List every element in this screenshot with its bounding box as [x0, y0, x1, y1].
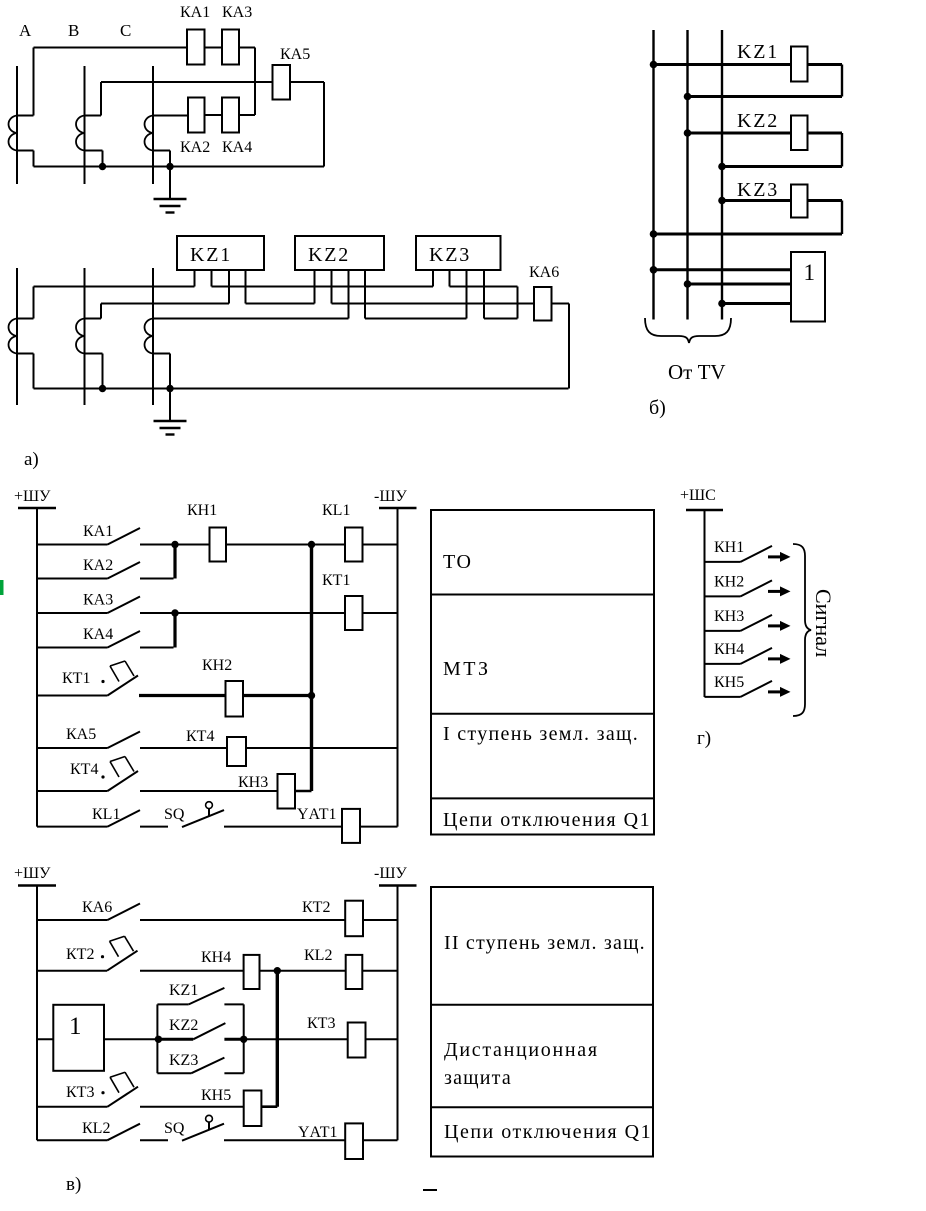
svg-text:+ШУ: +ШУ [14, 488, 51, 505]
svg-text:КН1: КН1 [187, 502, 217, 519]
svg-text:КА5: КА5 [66, 726, 96, 743]
svg-text:KZ3: KZ3 [169, 1052, 198, 1069]
svg-text:КА4: КА4 [83, 626, 113, 643]
svg-text:II ступень земл. защ.: II ступень земл. защ. [444, 932, 646, 954]
svg-text:С: С [120, 21, 131, 40]
svg-text:г): г) [697, 728, 711, 749]
svg-text:-ШУ: -ШУ [374, 488, 407, 505]
svg-text:KZ2: KZ2 [169, 1017, 198, 1034]
svg-text:КА5: КА5 [280, 46, 310, 63]
svg-text:КА3: КА3 [222, 4, 252, 21]
svg-text:В: В [68, 21, 79, 40]
svg-text:в): в) [66, 1174, 81, 1195]
svg-text:KZ1: KZ1 [737, 41, 779, 63]
svg-text:КТ3: КТ3 [307, 1015, 335, 1032]
svg-text:От TV: От TV [668, 360, 726, 384]
svg-text:SQ: SQ [164, 806, 185, 823]
svg-text:КТ4: КТ4 [70, 761, 98, 778]
svg-text:КА6: КА6 [82, 899, 112, 916]
svg-text:I ступень земл. защ.: I ступень земл. защ. [443, 723, 639, 745]
svg-text:КН5: КН5 [714, 674, 744, 691]
svg-text:КL2: КL2 [82, 1120, 110, 1137]
svg-text:КL2: КL2 [304, 947, 332, 964]
svg-text:Цепи отключения Q1: Цепи отключения Q1 [444, 1121, 652, 1143]
svg-text:А: А [19, 21, 32, 40]
svg-text:КА1: КА1 [83, 523, 113, 540]
svg-text:КТ4: КТ4 [186, 728, 214, 745]
svg-text:КН4: КН4 [201, 949, 231, 966]
svg-text:КТ2: КТ2 [66, 946, 94, 963]
svg-text:КН5: КН5 [201, 1087, 231, 1104]
svg-text:КА2: КА2 [180, 139, 210, 156]
svg-text:КL1: КL1 [92, 806, 120, 823]
svg-text:КА4: КА4 [222, 139, 252, 156]
svg-text:KZ3: KZ3 [737, 179, 779, 201]
svg-text:+ШС: +ШС [680, 487, 716, 504]
svg-text:YАТ1: YАТ1 [297, 806, 336, 823]
svg-text:КА1: КА1 [180, 4, 210, 21]
svg-text:КТ1: КТ1 [322, 572, 350, 589]
svg-text:YАТ1: YАТ1 [298, 1124, 337, 1141]
svg-text:KZ3: KZ3 [429, 244, 471, 266]
svg-text:Сигнал: Сигнал [811, 589, 836, 657]
svg-text:Дистанционная: Дистанционная [444, 1039, 599, 1061]
svg-text:KZ1: KZ1 [169, 982, 198, 999]
svg-text:1: 1 [804, 260, 816, 285]
svg-text:КТ1: КТ1 [62, 670, 90, 687]
svg-text:+ШУ: +ШУ [14, 865, 51, 882]
svg-text:ТО: ТО [443, 551, 472, 573]
svg-text:КН3: КН3 [714, 608, 744, 625]
svg-text:КН2: КН2 [202, 657, 232, 674]
svg-text:КН4: КН4 [714, 641, 744, 658]
svg-text:SQ: SQ [164, 1120, 185, 1137]
svg-text:б): б) [649, 397, 666, 419]
svg-text:КН3: КН3 [238, 774, 268, 791]
svg-text:КА6: КА6 [529, 264, 559, 281]
svg-text:KZ2: KZ2 [308, 244, 350, 266]
svg-text:KZ2: KZ2 [737, 110, 779, 132]
svg-text:КТ2: КТ2 [302, 899, 330, 916]
svg-text:а): а) [24, 449, 39, 470]
svg-text:-ШУ: -ШУ [374, 865, 407, 882]
svg-text:КL1: КL1 [322, 502, 350, 519]
svg-text:КН2: КН2 [714, 573, 744, 590]
svg-text:КТ3: КТ3 [66, 1084, 94, 1101]
svg-text:КН1: КН1 [714, 539, 744, 556]
svg-text:КА3: КА3 [83, 592, 113, 609]
svg-text:1: 1 [69, 1013, 82, 1040]
svg-text:Цепи отключения Q1: Цепи отключения Q1 [443, 809, 651, 831]
svg-text:МТЗ: МТЗ [443, 658, 491, 680]
svg-text:КА2: КА2 [83, 557, 113, 574]
svg-text:защита: защита [444, 1067, 512, 1089]
svg-text:KZ1: KZ1 [190, 244, 232, 266]
